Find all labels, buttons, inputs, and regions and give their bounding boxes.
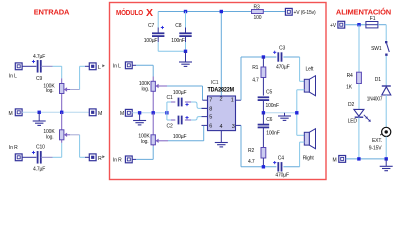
svg-text:C3: C3: [279, 46, 285, 52]
svg-text:M: M: [332, 157, 336, 163]
svg-text:100µF: 100µF: [173, 134, 187, 140]
svg-text:C4: C4: [278, 156, 284, 162]
svg-text:7: 7: [209, 98, 212, 104]
svg-text:5: 5: [209, 115, 212, 121]
svg-text:C7: C7: [148, 23, 154, 29]
svg-text:9-15V: 9-15V: [369, 145, 382, 151]
svg-text:1N4007: 1N4007: [367, 97, 383, 103]
svg-text:L: L: [98, 65, 101, 71]
svg-text:470µF: 470µF: [276, 65, 290, 71]
svg-text:log.: log.: [141, 139, 148, 145]
svg-text:X: X: [146, 7, 153, 19]
svg-text:C9: C9: [36, 76, 42, 82]
svg-text:ALIMENTACIÓN: ALIMENTACIÓN: [336, 8, 391, 17]
svg-text:R2: R2: [248, 148, 254, 154]
svg-text:In R: In R: [9, 145, 18, 151]
svg-text:4.7: 4.7: [248, 159, 255, 165]
svg-text:In L: In L: [9, 74, 17, 80]
svg-text:2: 2: [220, 96, 223, 102]
svg-text:C6: C6: [266, 117, 272, 123]
svg-text:6: 6: [209, 123, 212, 129]
svg-text:R4: R4: [347, 73, 353, 79]
svg-text:100: 100: [254, 15, 262, 21]
svg-text:Right: Right: [303, 156, 315, 162]
svg-text:4.7: 4.7: [252, 77, 259, 83]
svg-text:M: M: [98, 111, 102, 117]
svg-text:C8: C8: [175, 23, 181, 29]
svg-text:R1: R1: [252, 65, 258, 71]
svg-text:Left: Left: [306, 66, 315, 72]
svg-text:1: 1: [231, 98, 234, 104]
svg-text:log.: log.: [142, 87, 149, 93]
svg-text:1K: 1K: [346, 84, 353, 90]
svg-text:C5: C5: [266, 90, 272, 96]
svg-text:+V: +V: [330, 23, 337, 29]
svg-text:IC1: IC1: [211, 80, 219, 86]
svg-text:470µF: 470µF: [275, 173, 289, 179]
svg-text:4.7µF: 4.7µF: [33, 167, 45, 173]
svg-text:ENTRADA: ENTRADA: [34, 8, 70, 17]
svg-text:In R: In R: [113, 158, 122, 164]
svg-text:4: 4: [220, 124, 223, 130]
svg-text:MÓDULO: MÓDULO: [116, 8, 144, 17]
svg-text:100nF: 100nF: [266, 131, 280, 137]
svg-text:log.: log.: [46, 135, 53, 141]
svg-text:M: M: [8, 111, 12, 117]
svg-text:100nF: 100nF: [266, 103, 280, 109]
svg-text:log.: log.: [46, 88, 53, 94]
svg-text:TDA2822M: TDA2822M: [208, 88, 235, 94]
svg-text:D2: D2: [348, 102, 354, 108]
svg-text:In L: In L: [113, 64, 121, 70]
svg-text:D1: D1: [375, 77, 381, 83]
svg-text:4.7µF: 4.7µF: [33, 54, 45, 60]
svg-text:8: 8: [209, 106, 212, 112]
svg-text:100nF: 100nF: [171, 38, 185, 44]
svg-text:R: R: [98, 156, 102, 162]
svg-text:100µF: 100µF: [144, 38, 158, 44]
svg-text:3: 3: [232, 124, 235, 130]
svg-text:C10: C10: [36, 145, 45, 151]
svg-text:+V (6-15v): +V (6-15v): [294, 10, 316, 16]
svg-text:C2: C2: [167, 123, 173, 129]
svg-text:100µF: 100µF: [173, 90, 187, 96]
svg-text:M: M: [120, 111, 124, 117]
svg-text:LED: LED: [348, 119, 358, 125]
svg-text:SW1: SW1: [371, 46, 382, 52]
svg-text:EXT.: EXT.: [372, 138, 382, 144]
